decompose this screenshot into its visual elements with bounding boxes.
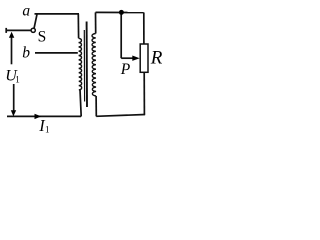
svg-text:1: 1 (45, 125, 50, 135)
svg-text:b: b (22, 44, 30, 61)
svg-text:1: 1 (15, 74, 20, 84)
svg-text:S: S (38, 28, 47, 45)
svg-text:P: P (120, 61, 131, 78)
svg-text:a: a (22, 2, 30, 19)
svg-text:R: R (150, 47, 163, 68)
